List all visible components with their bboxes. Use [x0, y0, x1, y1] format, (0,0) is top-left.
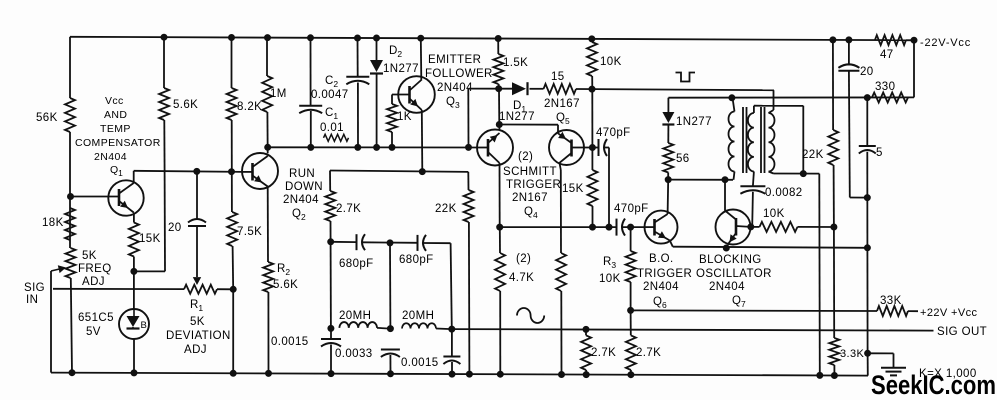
svg-text:2.7K: 2.7K: [336, 203, 361, 215]
svg-text:56: 56: [676, 153, 690, 165]
svg-text:B: B: [141, 320, 148, 331]
wire Q5 emitter down: [560, 163, 561, 170]
transistor Q5 2N167 (Schmitt): [549, 130, 584, 165]
node 8.2K/7.5K tap: [229, 169, 235, 175]
node bottom rail junction x=630.9: [628, 372, 634, 378]
svg-text:EMITTER: EMITTER: [428, 54, 481, 66]
resistor 18K: [65, 208, 75, 240]
wire wiper arrow: [196, 226, 198, 277]
node filter left mid: [328, 239, 334, 245]
svg-text:TRIGGER: TRIGGER: [506, 179, 561, 191]
wire Schmitt bus y89: [468, 88, 512, 90]
wire freq-adj wiper: [50, 271, 52, 373]
svg-text:5K: 5K: [82, 250, 97, 262]
wire Q3 collector: [420, 38, 423, 79]
svg-text:-22V-Vcc: -22V-Vcc: [920, 37, 971, 49]
node 56 bottom junction: [665, 177, 671, 183]
wire R2 to rail: [267, 292, 269, 373]
svg-text:ADJ: ADJ: [82, 276, 105, 288]
wire 10K column: [591, 39, 593, 42]
svg-text:OSCILLATOR: OSCILLATOR: [696, 268, 772, 280]
wire 1.5K column: [497, 39, 499, 55]
resistor 7.5K: [227, 212, 237, 246]
transistor Q6 B.O. trigger 2N404: [645, 211, 678, 244]
node Q3 emitter to filter: [419, 169, 425, 175]
resistor 56K: [65, 98, 75, 132]
svg-text:SIG OUT: SIG OUT: [937, 326, 987, 338]
svg-text:5K: 5K: [190, 316, 205, 328]
transistor Q1 2N404: [108, 180, 143, 215]
svg-text:651C5: 651C5: [78, 312, 114, 324]
svg-text:5: 5: [876, 147, 883, 159]
wire Q3 base 1K: [391, 95, 393, 105]
svg-text:IN: IN: [26, 294, 38, 306]
wire Q4 emitter down: [499, 163, 501, 227]
node 2.7K first top: [583, 326, 589, 332]
wire 10K to 22K column: [751, 226, 760, 228]
svg-text:7.5K: 7.5K: [237, 226, 262, 238]
wire 680pF row: [331, 241, 356, 243]
capacitor 0.0015 second: [443, 356, 460, 358]
node bottom rail junction x=819.8: [817, 372, 823, 378]
node top rail junction x=164: [161, 34, 167, 40]
inductor 20MH first: [339, 322, 377, 328]
wire Schmitt feed vertical: [467, 89, 469, 148]
node 5uF cap top: [864, 95, 870, 101]
capacitor 5: [859, 145, 876, 147]
svg-text:3.3K: 3.3K: [840, 348, 864, 360]
node 680pF row middle: [387, 240, 393, 246]
wire bottom common rail: [51, 373, 868, 376]
resistor 2.7K first: [581, 335, 591, 370]
wire 22K right column: [832, 40, 834, 130]
annotation squarewave pulse: [676, 73, 696, 82]
resistor 330: [872, 93, 908, 103]
wire filter right column: [451, 243, 452, 329]
wire 0.0033 column: [389, 243, 391, 329]
potentiometer R1 5K DEVIATION ADJ: [184, 285, 217, 294]
svg-text:20MH: 20MH: [402, 310, 434, 322]
transformer core: [742, 107, 744, 173]
capacitor 20 (electrolytic): [188, 219, 206, 223]
svg-text:20: 20: [168, 222, 182, 234]
wire Q6 emitter: [670, 241, 673, 247]
svg-text:2N167: 2N167: [512, 192, 548, 204]
svg-text:+22V +Vcc: +22V +Vcc: [920, 307, 978, 319]
resistor 15K (Q1 emitter): [129, 223, 139, 257]
wire Q2 emitter: [267, 187, 269, 263]
wire winding bottom bus: [668, 179, 733, 181]
svg-text:470pF: 470pF: [614, 203, 649, 215]
capacitor 470pF upper: [598, 139, 600, 156]
capacitor 0.0015 first: [321, 338, 341, 340]
wire 0.0033 to rail: [389, 355, 391, 374]
node bottom rail junction x=834.4: [831, 373, 837, 379]
svg-text:1M: 1M: [270, 88, 287, 100]
resistor 4.7K second: [556, 253, 566, 291]
node R3 junction: [628, 224, 634, 230]
svg-text:33K: 33K: [880, 295, 902, 307]
node top rail junction x=267.5: [265, 35, 271, 41]
node Schmitt bus 1.5K: [496, 86, 502, 92]
node Q4 emitter junction: [497, 224, 503, 230]
ground symbol: [881, 367, 906, 369]
resistor 15 ohm: [544, 84, 577, 94]
capacitor 680pF first: [356, 234, 358, 250]
node 10K right junction: [831, 224, 837, 230]
diode 1N277 (right): [662, 112, 674, 123]
svg-text:2.7K: 2.7K: [591, 347, 616, 359]
wire zener to rail: [133, 339, 135, 373]
wire 4.7K second to rail: [560, 291, 562, 375]
node timing bus D2: [374, 144, 380, 150]
svg-text:1N277: 1N277: [676, 116, 712, 128]
wire 5uF column: [866, 98, 868, 146]
wire R1 to 7.5K column: [217, 288, 233, 290]
svg-text:0.0015: 0.0015: [401, 357, 439, 369]
resistor 22K right: [828, 130, 838, 165]
transistor Q7 blocking oscillator 2N404: [716, 210, 751, 245]
wire 1N277 column: [667, 98, 669, 112]
node bottom rail junction x=233.2: [230, 370, 236, 376]
svg-text:22K: 22K: [435, 203, 457, 215]
svg-text:(2): (2): [518, 151, 533, 163]
resistor 33K: [877, 306, 908, 316]
svg-text:Vcc: Vcc: [105, 95, 124, 107]
resistor 2.7K (filter): [325, 191, 335, 221]
node Q7 emitter junction: [723, 245, 729, 251]
node Q4 collector coupling: [496, 122, 502, 128]
svg-text:680pF: 680pF: [339, 258, 374, 270]
resistor 5.6K: [159, 88, 169, 120]
resistor 1K: [387, 104, 397, 132]
node top rail junction x=591.8: [589, 36, 595, 42]
transistor Q2 RUN DOWN 2N404: [242, 153, 278, 189]
node timing bus 1K: [389, 144, 395, 150]
resistor R3 10K: [626, 251, 636, 282]
capacitor C2 0.0047: [346, 76, 369, 78]
node top rail junction x=310.5: [308, 35, 314, 41]
resistor 3.3K: [829, 338, 839, 365]
svg-text:470pF: 470pF: [596, 127, 631, 139]
svg-text:22K: 22K: [802, 149, 824, 161]
wire 4.7K first to rail: [499, 291, 501, 374]
svg-text:1K: 1K: [397, 111, 412, 123]
svg-text:(2): (2): [516, 253, 531, 265]
node 20uF tap: [194, 168, 200, 174]
node top rail junction x=498.2: [495, 36, 501, 42]
wire timing bus y147: [268, 146, 477, 148]
wire filter left column: [329, 171, 331, 192]
wire Q5 collector: [584, 147, 592, 149]
svg-text:1N277: 1N277: [383, 63, 419, 75]
wire R3 leads: [630, 227, 632, 251]
node Q5 collector junction: [589, 145, 595, 151]
resistor 2.7K second: [626, 335, 636, 370]
wire 8.2K column: [231, 38, 233, 89]
svg-text:5.6K: 5.6K: [173, 99, 198, 111]
capacitor 0.0082: [740, 185, 765, 187]
wire Q3 emitter down: [421, 110, 424, 172]
node top rail junction x=832.9: [830, 37, 836, 43]
svg-text:56K: 56K: [36, 112, 58, 124]
svg-text:0.0033: 0.0033: [335, 348, 373, 360]
svg-text:FOLLOWER: FOLLOWER: [425, 68, 493, 80]
node top rail junction x=848.9: [846, 37, 852, 43]
node R3 bottom junction: [628, 307, 634, 313]
resistor R2 5.6K: [263, 262, 273, 292]
resistor 10K (Q7 collector): [760, 222, 798, 232]
wire 2.7K second column: [630, 310, 632, 335]
node Q7 collector junction: [748, 224, 754, 230]
svg-text:0.0082: 0.0082: [765, 187, 803, 199]
wire x819 ground leg: [818, 174, 821, 376]
svg-text:47: 47: [880, 49, 894, 61]
resistor 4.7K first: [495, 253, 505, 291]
node winding bottom junction: [800, 171, 806, 177]
decorative zigzag under 0.01: [324, 134, 349, 141]
node R1 right junction: [230, 286, 236, 292]
wire top supply rail (-22V): [70, 37, 914, 40]
transformer left winding: [729, 112, 735, 172]
svg-text:680pF: 680pF: [399, 254, 434, 266]
wire 0.0015 first to rail: [330, 345, 332, 374]
wire Q1 collector bus y171: [134, 171, 242, 172]
wire 0.0015 second to rail: [451, 329, 453, 356]
resistor 1M: [262, 76, 272, 112]
svg-text:SIG: SIG: [24, 282, 45, 294]
svg-text:15K: 15K: [139, 233, 161, 245]
svg-text:2N404: 2N404: [94, 151, 127, 163]
annotation sine wave: [517, 308, 544, 323]
svg-text:BLOCKING: BLOCKING: [699, 254, 762, 266]
wire Q1 emitter: [133, 213, 135, 223]
svg-text:10K: 10K: [763, 208, 785, 220]
wire 1K to bus: [391, 132, 393, 147]
wire C1 column: [310, 38, 312, 106]
node top rail junction x=914: [911, 37, 917, 43]
wire right corner vertical: [913, 40, 915, 97]
node timing bus Schmitt feed: [466, 144, 472, 150]
node upper 470pF junction: [606, 224, 612, 230]
zener diode 651C5 5V reference: [119, 309, 149, 339]
node bottom rail junction x=561.5: [559, 372, 565, 378]
node 15K bottom junction: [131, 268, 137, 274]
svg-text:0.0015: 0.0015: [271, 336, 309, 348]
capacitor 680pF second: [417, 235, 419, 251]
transistor Q4 2N167 (Schmitt): [477, 130, 513, 166]
wire 15K to zener: [133, 257, 135, 310]
wire R1 wiper from 20uF: [196, 171, 198, 220]
resistor 1.5K: [493, 54, 503, 84]
svg-text:SCHMITT: SCHMITT: [503, 166, 557, 178]
svg-text:15K: 15K: [562, 183, 584, 195]
node ground tap junction: [865, 350, 871, 356]
wire Q4-Q5 coupling: [499, 124, 558, 126]
svg-text:18K: 18K: [42, 217, 64, 229]
node Schmitt bus 10K: [589, 86, 595, 92]
node 15K bottom: [590, 224, 596, 230]
node bottom rail junction x=331: [328, 371, 334, 377]
svg-text:B.O.: B.O.: [649, 253, 674, 265]
node top rail junction x=231.5: [229, 35, 235, 41]
resistor 47: [875, 35, 906, 45]
wire 1M column: [266, 38, 268, 76]
node emitter bus right end: [864, 245, 870, 251]
node top rail junction x=420.8: [418, 35, 424, 41]
wire Q1 collector up: [133, 171, 135, 183]
node bottom rail junction x=268.5: [266, 370, 272, 376]
wire +22V bus: [631, 309, 877, 312]
svg-text:ADJ: ADJ: [184, 344, 207, 356]
node bottom rail junction x=500.3: [497, 371, 503, 377]
diode D1 1N277: [512, 82, 526, 95]
svg-text:TEMP: TEMP: [100, 123, 131, 135]
resistor 56: [663, 143, 673, 173]
svg-text:0.01: 0.01: [320, 122, 344, 134]
resistor 10K (Schmitt): [587, 42, 597, 76]
wire emitter bus y248: [673, 247, 868, 248]
wire BO trigger base bus: [500, 226, 617, 228]
transistor Q3 2N404: [398, 76, 435, 113]
node coil row middle: [387, 326, 393, 332]
node bottom rail junction x=452: [449, 371, 455, 377]
node top rail junction x=376.5: [374, 35, 380, 41]
node Q7 base tap: [722, 177, 728, 183]
svg-text:10K: 10K: [600, 56, 622, 68]
capacitor 0.0033: [381, 349, 400, 351]
wire 5.6K column lower: [134, 270, 165, 272]
node timing bus C1: [308, 144, 314, 150]
node bottom rail junction x=134: [131, 370, 137, 376]
svg-text:5.6K: 5.6K: [273, 279, 298, 291]
svg-text:AND: AND: [104, 109, 127, 121]
transformer right winding: [769, 113, 775, 171]
wire C2 column: [357, 38, 359, 77]
wire 47 to corner: [906, 39, 914, 41]
svg-text:10K: 10K: [599, 273, 621, 285]
diode D2 1N277: [370, 60, 383, 72]
node Q1 base junction: [68, 194, 74, 200]
svg-text:15: 15: [551, 71, 565, 83]
svg-text:5V: 5V: [86, 326, 101, 338]
node bottom rail junction x=469.4: [466, 371, 472, 377]
node left winding top: [729, 95, 735, 101]
svg-text:2.7K: 2.7K: [636, 347, 661, 359]
resistor 8.2K: [227, 88, 237, 120]
svg-text:DOWN: DOWN: [285, 181, 323, 193]
svg-text:FREQ: FREQ: [78, 263, 112, 275]
node bottom rail junction x=72: [69, 370, 75, 376]
wire SIG IN line: [53, 288, 184, 290]
capacitor 470pF lower: [616, 219, 618, 236]
svg-text:4.7K: 4.7K: [509, 272, 534, 284]
node timing bus C2: [355, 144, 361, 150]
wire D2 column: [376, 38, 378, 60]
svg-text:20MH: 20MH: [339, 310, 371, 322]
node bottom rail junction x=390.5: [388, 371, 394, 377]
capacitor 20 right (electrolytic): [838, 64, 859, 68]
wire transformer top bus: [668, 96, 914, 98]
svg-text:RUN: RUN: [289, 168, 315, 180]
wire middle winding top to 22K tap: [754, 105, 803, 107]
inductor 20MH second: [402, 323, 436, 328]
wire upper 470pF down: [605, 147, 609, 149]
wire left rail vertical: [69, 37, 71, 98]
svg-text:8.2K: 8.2K: [237, 101, 262, 113]
wire 5.6K column upper: [163, 37, 165, 88]
transformer middle winding: [748, 113, 754, 171]
svg-text:2N167: 2N167: [544, 98, 580, 110]
svg-text:DEVIATION: DEVIATION: [166, 330, 231, 342]
wire 22K filter column: [467, 172, 469, 190]
wire signal out bus: [377, 327, 390, 330]
svg-text:2N404: 2N404: [709, 281, 745, 293]
node 20/5 cap junction: [864, 195, 870, 201]
svg-text:SeekIC.com: SeekIC.com: [871, 370, 996, 400]
svg-text:20: 20: [860, 66, 874, 78]
potentiometer 5K FREQ ADJ: [66, 248, 76, 278]
wire to upper 470pF: [592, 147, 598, 149]
node top rail junction x=357.5: [355, 35, 361, 41]
wire 20uF right column: [848, 40, 850, 66]
svg-text:1N277: 1N277: [499, 111, 535, 123]
svg-text:TRIGGER: TRIGGER: [637, 268, 692, 280]
wire filter top: [330, 171, 468, 172]
svg-text:2N404: 2N404: [643, 281, 679, 293]
wire 0.0082 down: [751, 192, 754, 227]
resistor 22K (filter): [464, 190, 474, 222]
capacitor C1 0.01: [299, 105, 322, 107]
svg-text:0.0047: 0.0047: [311, 89, 349, 101]
wire ground tap: [868, 352, 894, 354]
svg-text:1.5K: 1.5K: [503, 57, 528, 69]
svg-text:330: 330: [875, 81, 895, 93]
wire right winding bottom: [774, 173, 820, 175]
resistor 15K (Schmitt): [588, 170, 598, 206]
wire Q6 collector up: [667, 180, 670, 214]
svg-text:COMPENSATOR: COMPENSATOR: [75, 137, 161, 149]
node coil row right: [449, 326, 455, 332]
node Q2 collector junction: [265, 144, 271, 150]
svg-text:2N404: 2N404: [283, 194, 319, 206]
node bottom rail junction x=586.2: [583, 372, 589, 378]
wire 2.7K first leads: [585, 329, 587, 335]
node coil row left: [328, 325, 334, 331]
